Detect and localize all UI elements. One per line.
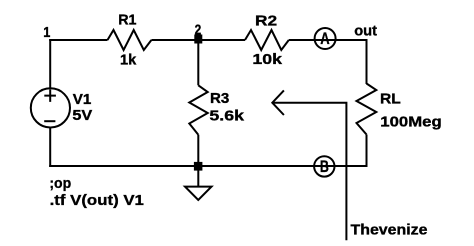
- resistor R1: [108, 30, 152, 50]
- probe B circle: [314, 156, 334, 176]
- junction at node 2: [194, 35, 202, 44]
- wire node 2 down to R3: [197, 40, 199, 85]
- svg-text:RL: RL: [380, 91, 401, 108]
- wire top-left horizontal (node 1 to R1): [49, 39, 107, 41]
- svg-text:B: B: [320, 158, 329, 176]
- svg-text:.tf V(out) V1: .tf V(out) V1: [50, 192, 144, 209]
- svg-text:R2: R2: [255, 12, 277, 29]
- svg-text:R1: R1: [118, 11, 136, 28]
- svg-text:1k: 1k: [120, 52, 137, 69]
- svg-text:out: out: [354, 23, 377, 40]
- svg-text:;op: ;op: [49, 175, 71, 192]
- wire V1 bottom to bottom rail: [49, 128, 51, 168]
- resistor RL: [357, 84, 377, 135]
- svg-text:100Meg: 100Meg: [380, 113, 441, 130]
- wire bottom rail: [49, 165, 366, 167]
- junction at ground node: [194, 162, 203, 171]
- wire RL bottom to bottom rail: [366, 135, 368, 168]
- svg-text:V1: V1: [73, 91, 92, 108]
- wire out corner down to RL: [366, 39, 368, 84]
- voltage source V1: [31, 88, 70, 127]
- wire R3 bottom to bottom rail: [197, 135, 199, 166]
- probe A circle: [315, 28, 336, 49]
- svg-text:Thevenize: Thevenize: [351, 222, 428, 239]
- resistor R2: [245, 30, 289, 50]
- resistor R3: [189, 85, 207, 134]
- wire R1 to R2 through node 2: [151, 39, 245, 41]
- annotation arrow Thevenize: [272, 103, 346, 241]
- wire ground stub: [197, 166, 199, 187]
- svg-text:1: 1: [43, 24, 50, 41]
- wire R2 to out corner: [289, 39, 367, 41]
- svg-text:5.6k: 5.6k: [209, 108, 244, 125]
- svg-text:5V: 5V: [72, 107, 92, 124]
- svg-text:R3: R3: [210, 90, 229, 107]
- annotation arrowhead: [272, 90, 284, 115]
- ground: [185, 187, 212, 200]
- svg-text:10k: 10k: [252, 51, 282, 68]
- svg-text:A: A: [320, 30, 330, 48]
- wire left vertical (node 1 to V1 top): [49, 39, 51, 88]
